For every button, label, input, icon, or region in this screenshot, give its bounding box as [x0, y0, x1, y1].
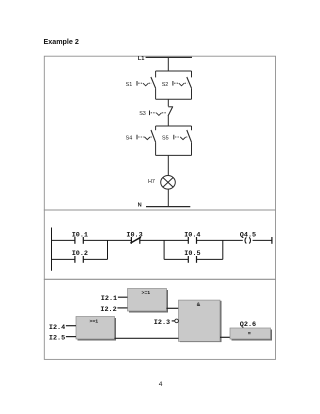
lamp H7 — [148, 176, 175, 190]
switch S5 — [162, 126, 192, 155]
coil Q4.5 — [240, 231, 256, 243]
wire — [140, 239, 189, 241]
wire top bar S4/S5 group — [156, 125, 192, 127]
frame box 3 (function block diagram panel) — [44, 279, 275, 359]
OR block 1 (>=1) — [128, 289, 167, 312]
svg-text:S1: S1 — [126, 82, 133, 88]
svg-text:I0.5: I0.5 — [184, 250, 200, 258]
svg-text:>=1: >=1 — [90, 318, 99, 324]
wire AND output — [220, 336, 230, 338]
wire bottom bar S1/S2 group — [156, 98, 192, 100]
left power rail — [51, 228, 53, 271]
L1 bus — [146, 56, 192, 58]
svg-text:I2.5: I2.5 — [49, 335, 65, 343]
switch S4 — [126, 126, 156, 155]
wire — [83, 258, 107, 260]
switch S1 — [126, 71, 156, 99]
svg-text:H7: H7 — [148, 179, 155, 185]
svg-text:Example 2: Example 2 — [44, 38, 79, 46]
svg-text:I2.2: I2.2 — [100, 306, 116, 314]
contact I0.4 — [184, 231, 200, 243]
svg-text:I0.2: I0.2 — [72, 250, 88, 258]
svg-text:S2: S2 — [162, 82, 169, 88]
branch junction riser (I0.2) — [107, 240, 109, 259]
contact I0.5 — [184, 250, 200, 263]
contact I0.2 — [72, 250, 88, 263]
contact I0.1 — [72, 231, 88, 243]
switch S2 — [162, 71, 192, 99]
svg-text:S4: S4 — [126, 135, 133, 141]
svg-text:=: = — [248, 331, 251, 337]
AND block (&) — [179, 300, 221, 341]
rung 2 wire — [52, 258, 75, 260]
branch wire — [164, 258, 188, 260]
svg-text:>=1: >=1 — [142, 290, 151, 296]
wire OR2 output to AND bottom input — [115, 337, 179, 339]
contact I0.3 (NC) — [126, 231, 142, 243]
svg-text:I2.3: I2.3 — [154, 319, 170, 327]
wire stem to S3 — [167, 99, 169, 106]
svg-text:I0.4: I0.4 — [184, 231, 200, 239]
svg-text:I2.1: I2.1 — [101, 295, 117, 303]
wire to right rail — [253, 239, 272, 241]
output block Q2.6 shadow — [232, 330, 273, 341]
branch wire — [197, 258, 223, 260]
svg-text:S5: S5 — [162, 135, 169, 141]
frame box 1 (circuit diagram panel) — [44, 56, 275, 210]
wire top bar S1/S2 group — [156, 70, 192, 72]
svg-text:L1: L1 — [138, 56, 145, 62]
wire stem to N — [167, 189, 169, 207]
OR block 1 shadow — [129, 290, 168, 313]
N bus — [146, 206, 190, 208]
wire bottom bar S4/S5 group — [156, 154, 192, 156]
OR block 2 shadow — [78, 318, 117, 341]
right rail end bar — [271, 237, 273, 244]
AND block shadow — [180, 301, 222, 342]
svg-text:N: N — [138, 202, 142, 208]
wire stem from L1 — [167, 57, 169, 71]
svg-text:I2.4: I2.4 — [49, 324, 65, 332]
output block Q2.6 (=) — [230, 328, 271, 339]
svg-text:Q2.6: Q2.6 — [240, 321, 256, 329]
wire — [197, 239, 243, 241]
branch riser left (I0.5) — [163, 240, 165, 259]
svg-text:I0.1: I0.1 — [72, 231, 88, 239]
OR block 2 (>=1) — [76, 317, 115, 340]
wire stem to lamp — [167, 155, 169, 175]
branch riser right (I0.5) — [222, 240, 224, 259]
switch S3 (NC) — [139, 107, 173, 127]
svg-text:4: 4 — [159, 381, 163, 388]
svg-text:Q4.5: Q4.5 — [240, 231, 256, 239]
wire OR1 output to AND — [167, 307, 179, 309]
frame box 2 (ladder diagram panel) — [44, 210, 275, 279]
svg-text:S3: S3 — [139, 111, 146, 117]
rung 1 wire — [52, 239, 75, 241]
wire — [83, 239, 131, 241]
